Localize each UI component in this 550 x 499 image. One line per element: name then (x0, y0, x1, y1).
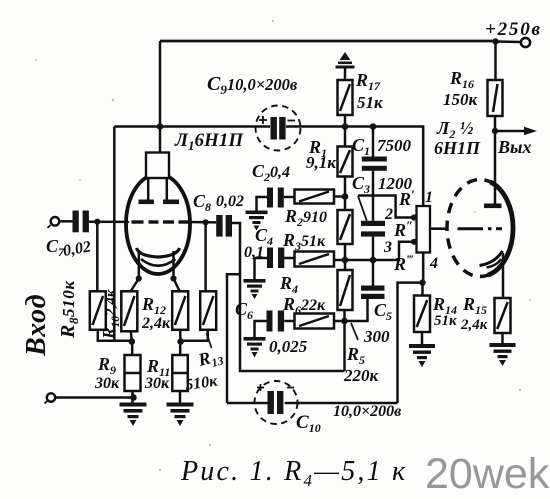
svg-text:51к: 51к (434, 313, 457, 329)
wire R17 to anode rail (344, 115, 347, 127)
capacitor C8 0,02 (216, 215, 232, 237)
wire leader to R5 label (351, 323, 358, 340)
svg-text:300: 300 (363, 327, 390, 346)
divider box R' R'' R''' (417, 206, 431, 253)
terminal input top (48, 217, 60, 228)
resistor R6 (295, 314, 335, 329)
node tap4 junction (419, 279, 425, 285)
capacitor C3 1200 (361, 221, 385, 286)
ground (left, under R9) (120, 403, 147, 427)
svg-text:4: 4 (429, 255, 438, 272)
node tap3 (411, 239, 417, 245)
tube U1 anode plate leads (147, 178, 150, 200)
ground (under R14) (409, 344, 435, 367)
tube U2 anode plate (484, 204, 502, 209)
wire C10 rail right (285, 402, 398, 405)
svg-text:C20,4: C20,4 (252, 161, 290, 184)
wire R3 right lead (334, 259, 345, 262)
resistor R1 (338, 147, 353, 177)
svg-text:+250в: +250в (485, 19, 541, 40)
tube U1 heater arc (141, 259, 176, 266)
node R5/R6/C5 junction (341, 318, 348, 325)
tube U2 envelope solid right arc (488, 182, 513, 275)
wire to +250V terminal (496, 40, 521, 43)
svg-text:R351к: R351к (282, 230, 326, 253)
wire divider bottom lead 4 (422, 253, 425, 283)
wire ground to R17 (344, 68, 347, 80)
resistor R12 (172, 291, 188, 330)
tube U1 anode plates (139, 200, 155, 205)
resistor R9 (125, 355, 141, 391)
node R4/R3/R5 junction (342, 257, 349, 264)
wire leader R13 label (207, 333, 212, 348)
wire R1 bottom to R4 (344, 177, 347, 211)
node output junction (492, 128, 498, 134)
wire tap2 stepped (C3 top node to divider tap 2) (358, 196, 417, 218)
node C5 top junction (370, 257, 377, 264)
wire long bias line down left side (113, 127, 116, 342)
resistor R8 (90, 291, 106, 330)
wire R6 right lead (334, 320, 345, 323)
wire R9 bottom (131, 391, 134, 403)
resistor R3 (295, 252, 335, 267)
tube U2 grid (dash-dot) (458, 227, 503, 230)
node tap2 (411, 214, 417, 220)
ground (under R11) (167, 403, 194, 427)
tube U2 envelope (dashed) (447, 180, 513, 277)
capacitor C10 (electrolytic in dashed circle) (255, 381, 298, 424)
wire anode rail left segment (corner at x114 to C9) (114, 125, 270, 128)
wire jog to C10 branch (227, 274, 240, 403)
wire U1 grid to C8 (188, 221, 217, 224)
svg-text:30к: 30к (94, 375, 120, 392)
resistor R11 (172, 355, 188, 391)
output arrowhead (524, 127, 537, 136)
wire R13 bottom jog (181, 330, 208, 341)
capacitor C1 7500 (362, 127, 387, 221)
svg-text:6Н1П: 6Н1П (434, 138, 481, 158)
wire R14 bottom (421, 332, 424, 344)
node C1 top at rail (370, 123, 377, 130)
node ground junction (130, 394, 137, 401)
ground (under R15) (490, 343, 516, 366)
wire R13 top lead (204, 222, 207, 291)
wire R10 bottom lead (131, 331, 132, 341)
svg-text:20wek: 20wek (425, 450, 550, 498)
wire anode feed of U1 (vertical from top rail to anode collar) (159, 41, 162, 153)
svg-text:0,02: 0,02 (216, 193, 244, 210)
resistor R15 (495, 298, 511, 333)
svg-text:R102,4к: R102,4к (99, 289, 122, 340)
tube U1 anode collar (146, 153, 169, 179)
resistor R5 (338, 270, 353, 310)
node +250V junction (492, 38, 498, 44)
wire U2 grid lead from divider (430, 227, 446, 230)
wire R12 bottom lead (179, 330, 182, 342)
wire C8 right to feedback frame (232, 223, 345, 371)
node R8 tap on grid wire (94, 219, 100, 225)
wire R4 bottom (344, 244, 347, 270)
svg-text:Л16Н1П: Л16Н1П (174, 130, 244, 153)
tube U2 cathode (480, 251, 503, 266)
svg-text:150к: 150к (443, 90, 478, 109)
wire output arrow (495, 130, 527, 133)
node R17 bottom (342, 123, 349, 130)
ground (top, above R17) (336, 52, 355, 69)
node cathode left bend (136, 275, 142, 281)
svg-text:30к: 30к (144, 375, 170, 392)
terminal +250V (521, 38, 530, 47)
node cathode right bend (170, 275, 176, 281)
resistor R16 (488, 80, 503, 116)
node anode rail crossing (157, 123, 164, 130)
wire C7 to U1 grid (89, 220, 129, 223)
svg-text:3: 3 (383, 239, 392, 256)
svg-text:10,0×200в: 10,0×200в (333, 403, 401, 420)
resistor R17 (338, 80, 353, 115)
svg-text:R8510к: R8510к (57, 280, 81, 339)
wire R14 top lead (421, 283, 424, 296)
wire +250V top rail (160, 40, 496, 43)
svg-text:7500: 7500 (377, 136, 412, 155)
svg-text:0,1: 0,1 (244, 244, 264, 261)
wire node row y260 to tap3 riser (345, 242, 417, 260)
wire R15 bottom (501, 333, 504, 343)
svg-text:Вых: Вых (497, 137, 532, 157)
terminal input bottom (45, 393, 56, 403)
svg-text:2: 2 (384, 206, 393, 223)
tube U1 cathode (137, 248, 180, 257)
node R1/R2 junction (342, 193, 349, 200)
wire U2 cathode lead down (502, 253, 505, 298)
wire R8 bottom jog (98, 330, 132, 341)
capacitor C2 0,4 (257, 188, 295, 211)
wire tap4 to C10 riser (398, 283, 423, 403)
resistor R4 (338, 210, 353, 244)
svg-text:51к: 51к (357, 93, 383, 112)
svg-text:1: 1 (425, 189, 433, 206)
ground (under C4) (244, 279, 266, 299)
wire R11 bottom (179, 391, 182, 403)
wire R16 top lead (494, 42, 497, 81)
wire C10 rail left (227, 402, 268, 405)
svg-text:Рис. 1. R4—5,1 к: Рис. 1. R4—5,1 к (180, 456, 407, 490)
tube U1 grid (dashed) (132, 220, 189, 223)
wire junction to R9 (131, 342, 134, 356)
wire R16 bottom to U2 anode (494, 116, 497, 204)
wire junction to R11 (179, 342, 182, 356)
svg-text:9,1к: 9,1к (306, 153, 336, 172)
wire bottom input to ground junction (55, 396, 133, 399)
resistor R14 (414, 296, 430, 333)
resistor R10 (121, 291, 137, 331)
wire R8 top lead (96, 222, 99, 292)
wire R1 top lead (344, 127, 347, 147)
capacitor C4 0,1 (255, 248, 295, 280)
node R11 top junction (177, 338, 184, 345)
svg-text:Вход: Вход (21, 294, 52, 357)
capacitor C5 300 (345, 286, 385, 322)
resistor R13 (200, 291, 216, 330)
wire R2 right lead (334, 195, 345, 198)
svg-text:220к: 220к (343, 366, 379, 385)
svg-text:2,4к: 2,4к (141, 315, 171, 332)
wire C3 leader diagonal from tap2 line (358, 196, 367, 221)
svg-text:0,025: 0,025 (269, 337, 308, 356)
ground (under C2) (246, 211, 268, 231)
node R9 top junction (129, 338, 136, 345)
capacitor C9 (electrolytic in dashed circle) (256, 106, 301, 151)
node R13 tap on grid wire (203, 219, 209, 225)
resistor R2 (295, 190, 335, 204)
svg-text:R622к: R622к (282, 294, 326, 317)
capacitor C6 0,025 (255, 311, 295, 338)
wire R5 bottom to bottom rail (343, 310, 346, 371)
wire anode rail right segment (C9 to corner x423) (286, 127, 423, 207)
wire U1 cathode left lead (131, 251, 139, 292)
ground (under C6) (244, 337, 266, 358)
svg-text:2,4к: 2,4к (460, 317, 488, 333)
capacitor C7 0,02 (59, 211, 89, 233)
tube U1 envelope (126, 174, 190, 274)
wire U1 cathode right lead (174, 251, 180, 292)
tube U2 cathode inner arc (487, 259, 502, 268)
svg-text:R2910: R2910 (284, 206, 327, 229)
